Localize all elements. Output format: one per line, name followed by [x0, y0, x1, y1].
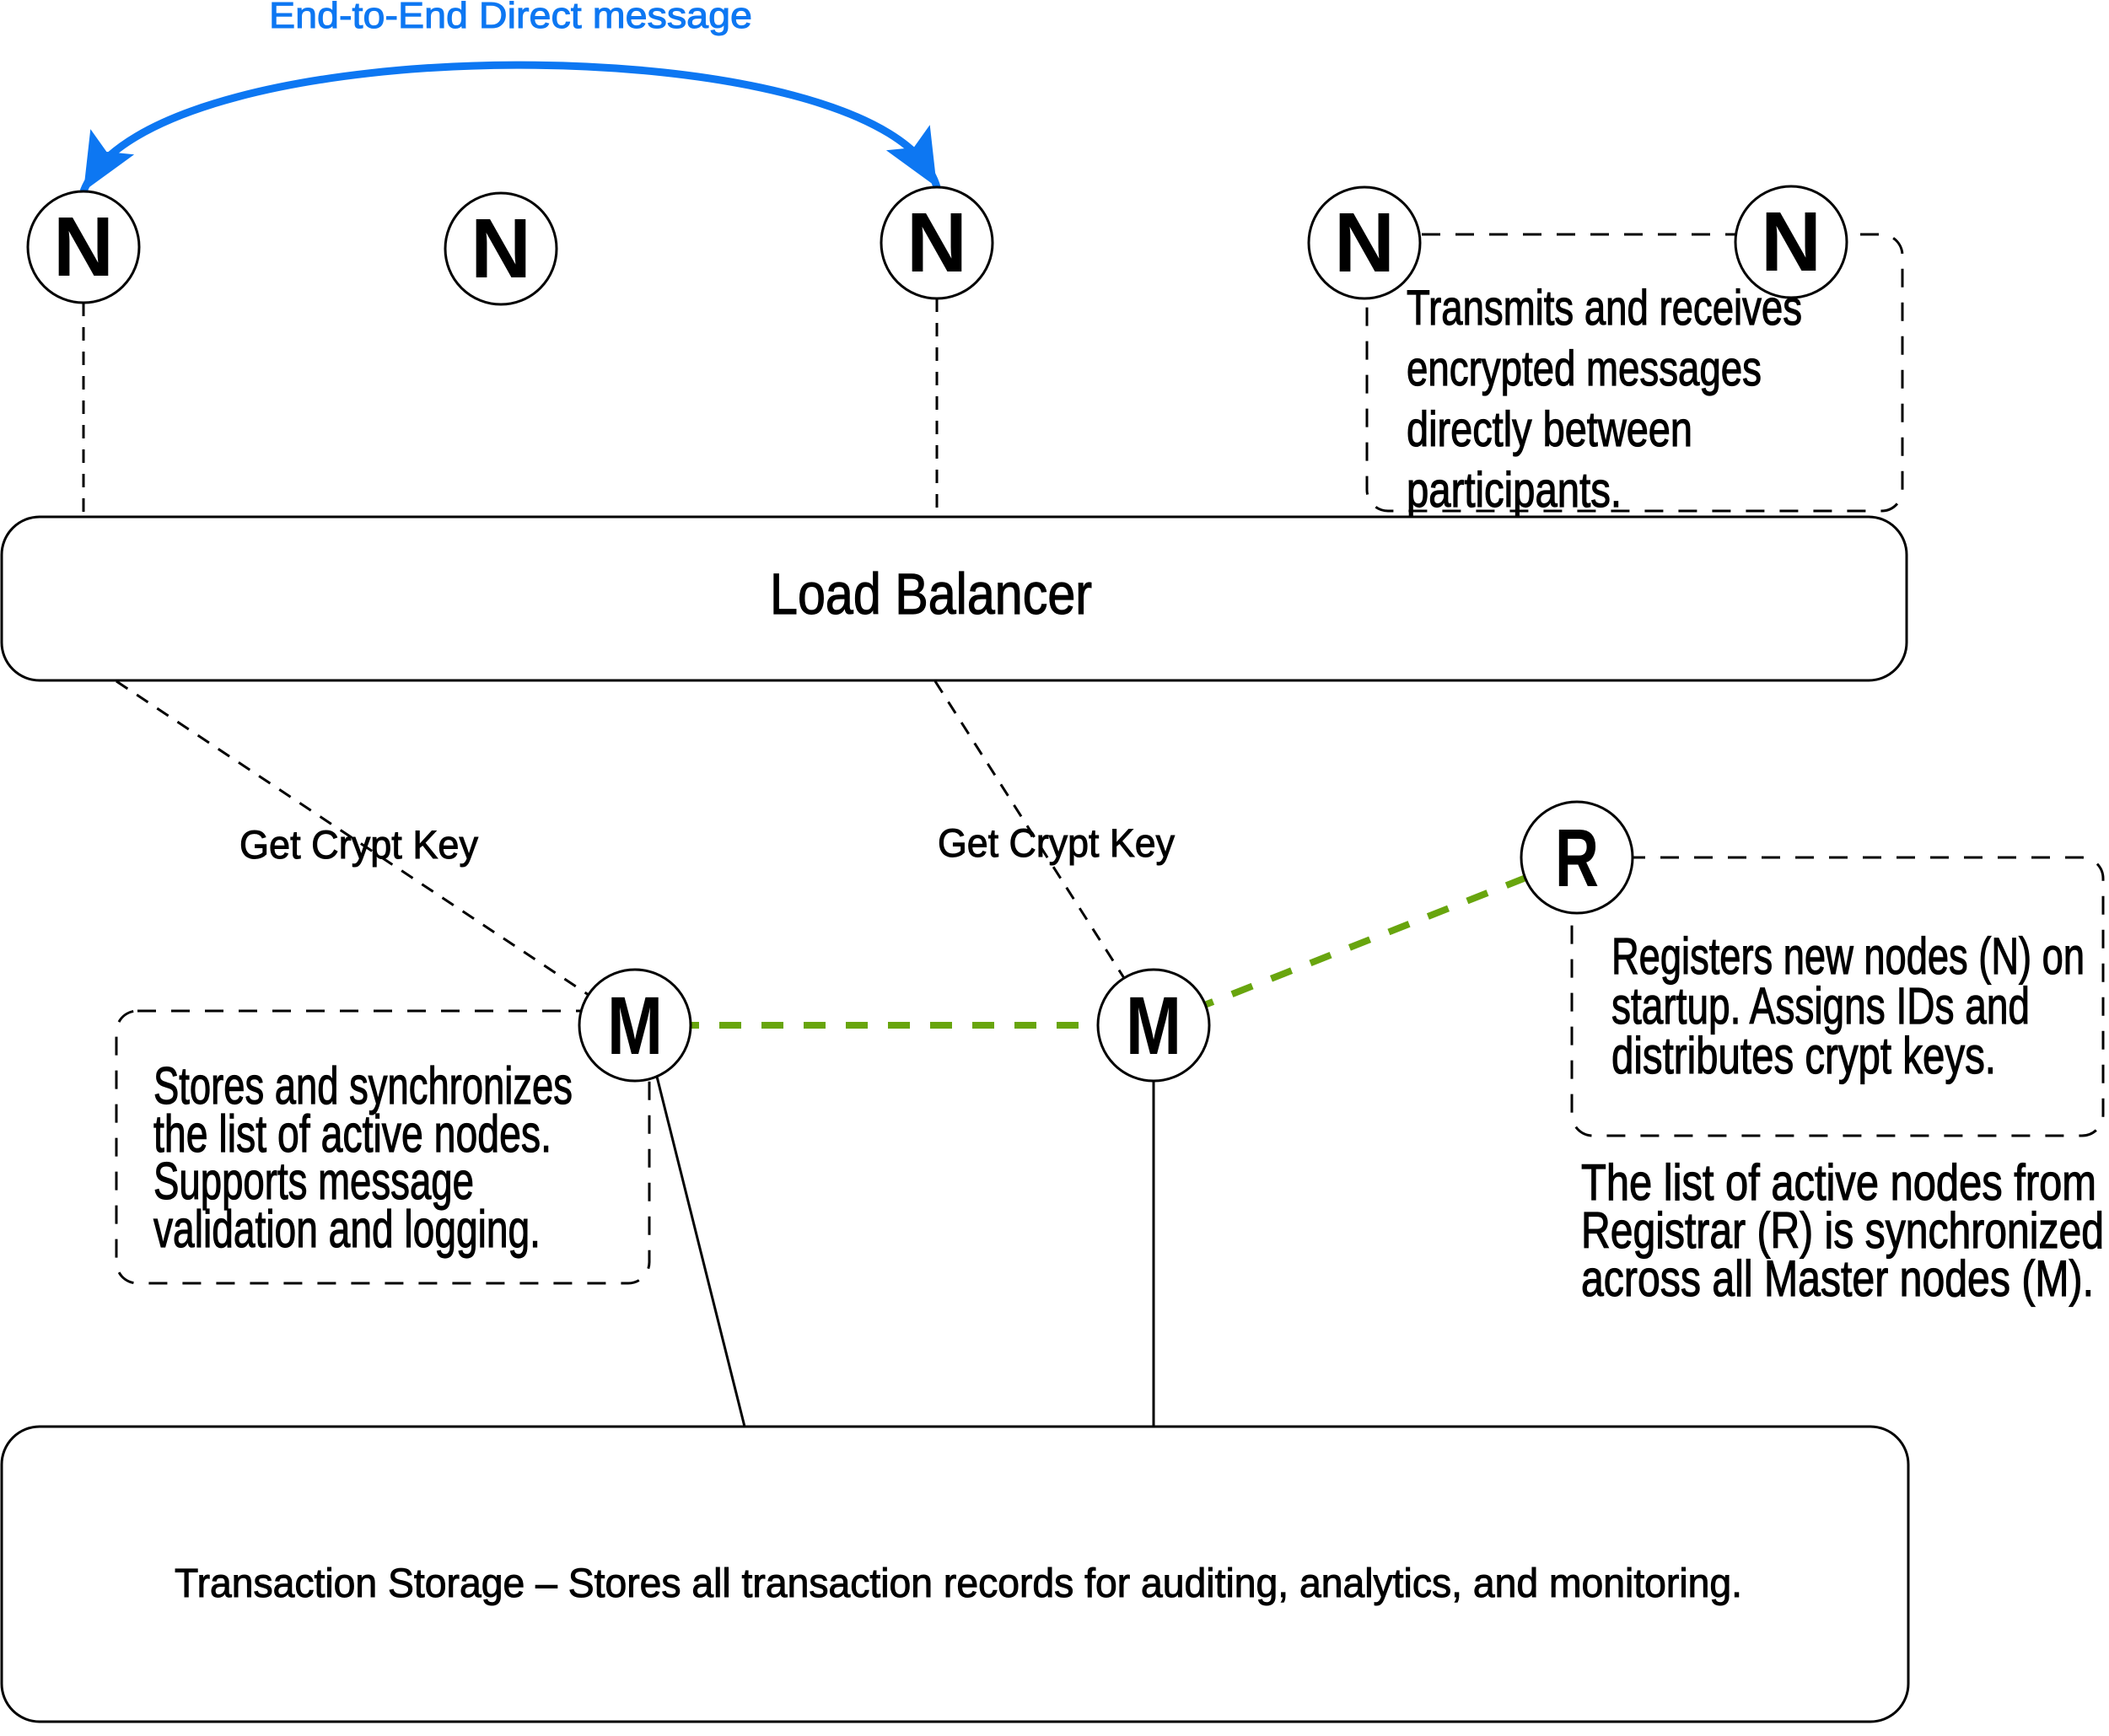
svg-text:N: N — [53, 200, 114, 294]
svg-text:Registers new nodes (N) on: Registers new nodes (N) on — [1611, 927, 2085, 985]
annotation text registers — [1611, 927, 2085, 1084]
node M2 — [1098, 970, 1209, 1081]
arrowhead right — [886, 125, 937, 187]
svg-text:M: M — [607, 980, 663, 1072]
node N1 — [28, 191, 139, 303]
svg-text:N: N — [1334, 196, 1395, 290]
svg-text:Load Balancer: Load Balancer — [770, 562, 1092, 626]
master annotation box (dashed) left — [116, 1011, 649, 1283]
svg-text:across all Master nodes (M).: across all Master nodes (M). — [1581, 1250, 2094, 1307]
wire green dashed M2 to R — [1154, 857, 1577, 1025]
wire blue arc N1 to N3 — [83, 65, 937, 191]
svg-text:N: N — [907, 196, 967, 290]
svg-text:R: R — [1555, 812, 1599, 904]
wire dashed LB to M1 — [116, 681, 589, 995]
svg-text:Transmits and receives: Transmits and receives — [1407, 281, 1802, 336]
Load Balancer box — [2, 517, 1907, 680]
svg-text:distributes crypt keys.: distributes crypt keys. — [1611, 1027, 1996, 1084]
svg-text:Transaction Storage – Stores a: Transaction Storage – Stores all transac… — [175, 1561, 1742, 1606]
svg-text:encrypted messages: encrypted messages — [1407, 341, 1762, 396]
node N4 — [1309, 187, 1420, 298]
node M1 — [579, 970, 691, 1081]
node N2 — [445, 193, 557, 304]
annotation text stores — [153, 1057, 573, 1259]
svg-text:N: N — [1761, 195, 1821, 289]
svg-text:N: N — [471, 202, 531, 296]
paragraph the list of active nodes — [1581, 1154, 2104, 1307]
annotation text transmits — [1407, 281, 1802, 518]
svg-text:validation and logging.: validation and logging. — [153, 1201, 541, 1259]
wire green dashed M1 to M2 — [635, 1022, 1154, 1029]
arrowhead left — [83, 129, 134, 191]
svg-text:Get Crypt Key: Get Crypt Key — [239, 822, 478, 867]
wire dashed vertical N3 to Load Balancer — [936, 298, 939, 517]
svg-text:participants.: participants. — [1407, 463, 1622, 518]
wire dashed vertical N1 to Load Balancer — [83, 303, 85, 517]
svg-text:End-to-End Direct message: End-to-End Direct message — [269, 0, 752, 36]
svg-text:directly between: directly between — [1407, 402, 1692, 457]
svg-text:Get Crypt Key: Get Crypt Key — [938, 820, 1175, 865]
node N3 — [881, 187, 993, 298]
wire solid M1 to Transaction Storage — [657, 1077, 745, 1427]
node R — [1521, 802, 1633, 913]
registrar annotation box (dashed) right — [1572, 857, 2103, 1136]
Transaction Storage box — [2, 1427, 1908, 1722]
svg-text:startup. Assigns IDs and: startup. Assigns IDs and — [1611, 977, 2030, 1035]
wire dashed LB to M2 — [935, 681, 1124, 978]
node annotation box (dashed) top right — [1367, 234, 1902, 511]
wire solid M2 to Transaction Storage — [1153, 1081, 1155, 1427]
svg-text:M: M — [1126, 980, 1181, 1072]
node N5 — [1735, 186, 1847, 298]
